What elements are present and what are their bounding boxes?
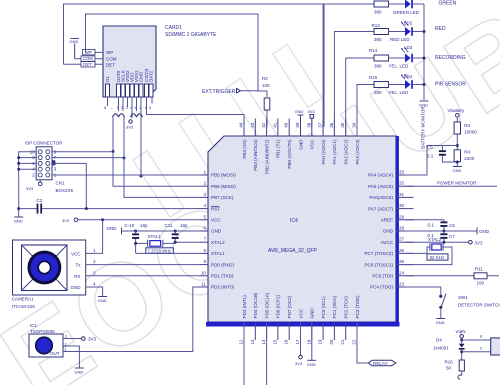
svg-text:CARD1: CARD1: [165, 25, 182, 31]
resistor R13: [372, 23, 389, 42]
svg-text:VCC: VCC: [298, 308, 303, 318]
svg-text:7.3728 MHz: 7.3728 MHz: [148, 248, 172, 253]
resistor R3: [454, 122, 477, 150]
svg-text:4: 4: [203, 203, 206, 208]
svg-text:3V3: 3V3: [62, 218, 70, 223]
svg-text:13: 13: [250, 339, 255, 345]
junction LED bus row2: [423, 30, 426, 33]
wire camera Tx to pin9: [86, 264, 199, 266]
svg-text:2: 2: [203, 181, 206, 186]
IC bottom pin names: [242, 292, 360, 318]
terminal Vbattery: [448, 108, 466, 123]
junction ISP gnd bus: [17, 156, 20, 159]
svg-text:GND: GND: [211, 229, 222, 234]
svg-text:PB5 (MOSI): PB5 (MOSI): [211, 173, 236, 178]
ground camera: [98, 297, 108, 304]
svg-text:R13: R13: [372, 23, 381, 28]
svg-text:17: 17: [295, 339, 300, 345]
svg-text:390: 390: [374, 90, 382, 95]
wire MISO down: [112, 117, 114, 186]
svg-text:CAMERA1: CAMERA1: [12, 296, 34, 301]
svg-text:21: 21: [340, 339, 345, 345]
svg-text:36: 36: [329, 122, 334, 128]
svg-text:100: 100: [262, 83, 270, 88]
resistor R15: [369, 75, 389, 95]
camera CAMERA1: [12, 240, 86, 309]
svg-text:41: 41: [272, 122, 277, 128]
svg-text:40: 40: [284, 122, 289, 128]
card pads: [106, 84, 154, 97]
svg-text:24: 24: [399, 270, 405, 275]
svg-text:GND: GND: [453, 168, 462, 173]
IC top pin numbers: [239, 122, 357, 128]
wire AREF row: [405, 220, 444, 222]
IC right pin stubs: [396, 175, 414, 287]
svg-text:100: 100: [477, 281, 485, 286]
svg-text:1: 1: [93, 248, 96, 253]
switch SW1: [405, 287, 500, 318]
svg-text:R3: R3: [464, 123, 470, 128]
svg-text:R15: R15: [369, 75, 378, 80]
svg-text:39: 39: [295, 122, 300, 128]
junction C7 AVCC row: [442, 241, 445, 244]
capacitor C7: [428, 231, 456, 242]
net label WP: [83, 50, 96, 55]
svg-text:32: 32: [399, 181, 405, 186]
svg-text:PB7 (SCK): PB7 (SCK): [211, 195, 234, 200]
junction MISO-ISP: [112, 150, 115, 153]
op IC4 AVR_MEGA_32_QFP body: [206, 136, 400, 324]
svg-text:30: 30: [399, 203, 405, 208]
label GND pin6: [107, 226, 200, 235]
svg-text:PC7 (TOSC2): PC7 (TOSC2): [364, 251, 393, 256]
junction VCC camera tap: [101, 218, 104, 221]
terminal 3V3 vcc row: [62, 218, 199, 223]
svg-text:34: 34: [352, 122, 357, 128]
svg-text:PA3 (ADC3): PA3 (ADC3): [355, 139, 360, 164]
svg-text:PC1 (SDA): PC1 (SDA): [332, 295, 337, 318]
junction MOSI-ISP: [140, 175, 143, 178]
svg-text:RED: RED: [435, 26, 446, 32]
svg-text:R14: R14: [369, 48, 378, 53]
svg-text:XTAL2: XTAL2: [211, 240, 225, 245]
svg-text:BOX2X5: BOX2X5: [56, 188, 74, 193]
resistor R16: [445, 360, 465, 380]
wire ISP MOSI row: [52, 174, 141, 176]
svg-text:LD3: LD3: [404, 45, 413, 50]
svg-text:PA0 (ADC0): PA0 (ADC0): [321, 139, 326, 164]
svg-text:IC1: IC1: [30, 323, 38, 328]
terminal 3V3 ISP pin2: [26, 180, 42, 191]
IC left pin stubs: [199, 175, 208, 287]
svg-text:C6: C6: [449, 223, 455, 228]
svg-text:PC6 (TOSC1): PC6 (TOSC1): [364, 262, 393, 267]
svg-text:6: 6: [203, 226, 206, 231]
camera pin numbers: [93, 248, 96, 287]
wire XTAL2 pin7: [175, 241, 199, 243]
wire DET row: [64, 63, 104, 65]
capacitor C5: [427, 145, 457, 163]
wire ISP MISO row: [52, 151, 113, 153]
svg-text:31: 31: [399, 192, 405, 197]
svg-text:1N4001: 1N4001: [433, 346, 449, 351]
card CARD1 SD/MMC body: [103, 26, 156, 97]
svg-text:20: 20: [329, 339, 334, 345]
svg-text:3V3: 3V3: [88, 337, 97, 342]
wire SCK down: [123, 117, 125, 197]
crystal XTAL1: [136, 234, 176, 253]
svg-text:GND: GND: [70, 39, 79, 44]
svg-text:BATTERY MONITOR: BATTERY MONITOR: [421, 106, 426, 149]
svg-text:38: 38: [306, 122, 311, 128]
svg-text:PD0 (RXD): PD0 (RXD): [211, 262, 234, 267]
wire COM row: [75, 58, 103, 60]
wire ISP RST row: [52, 163, 86, 208]
svg-text:PC2 (TCK): PC2 (TCK): [344, 296, 349, 319]
svg-text:R16: R16: [445, 360, 454, 365]
svg-text:CMD: CMD: [139, 71, 144, 82]
svg-text:GND: GND: [310, 308, 315, 319]
terminal 3V3 right: [469, 240, 483, 245]
svg-text:18p: 18p: [180, 223, 188, 228]
svg-text:PC3 (TMS): PC3 (TMS): [355, 295, 360, 318]
svg-text:GREEN LED: GREEN LED: [393, 10, 420, 15]
regulator IC5: [480, 334, 500, 356]
wire XTAL1 pin8: [136, 252, 199, 254]
svg-text:C7: C7: [449, 234, 455, 239]
resistor R12: [374, 1, 389, 15]
svg-text:R11: R11: [475, 267, 483, 272]
junction ISP RST net: [85, 207, 88, 210]
svg-text:EXT.TRIGGER: EXT.TRIGGER: [202, 89, 236, 95]
wire green LED row to PA0: [323, 4, 374, 136]
wire camera GND: [86, 287, 103, 296]
svg-text:3: 3: [93, 270, 96, 275]
terminal VqIN: [456, 329, 466, 343]
svg-text:AVR_MEGA_32_QFP: AVR_MEGA_32_QFP: [268, 248, 317, 254]
wire AVCC row to 3V3: [405, 241, 469, 243]
svg-text:43: 43: [250, 122, 255, 128]
svg-text:AVCC: AVCC: [381, 240, 394, 245]
svg-text:9: 9: [203, 259, 206, 264]
svg-text:44: 44: [239, 122, 244, 128]
IR receiver IC1 TSOP: [29, 323, 68, 357]
ferrite arcs pair B: [131, 114, 143, 117]
svg-text:PB4 (SS): PB4 (SS): [242, 139, 247, 159]
svg-text:XTAL1: XTAL1: [148, 234, 162, 239]
svg-text:26: 26: [399, 248, 405, 253]
svg-text:YEL. LED: YEL. LED: [389, 90, 410, 95]
wire red LED row to PA1: [334, 32, 374, 137]
wire relay net: [357, 322, 369, 363]
svg-text:PD3 (INT1): PD3 (INT1): [242, 295, 247, 319]
crystal XTAL2: [405, 237, 452, 265]
svg-text:PD2 (INT0): PD2 (INT0): [211, 285, 235, 290]
svg-text:PC4 (TDO): PC4 (TDO): [370, 285, 393, 290]
svg-text:GND: GND: [14, 219, 23, 224]
svg-text:GREEN: GREEN: [439, 1, 457, 7]
svg-text:GND: GND: [295, 109, 304, 114]
svg-text:LD4: LD4: [404, 74, 413, 79]
svg-text:PA1 (ADC1): PA1 (ADC1): [332, 139, 337, 164]
svg-text:C11: C11: [165, 223, 173, 228]
svg-text:RST: RST: [211, 206, 220, 211]
svg-text:D1: D1: [105, 76, 110, 82]
svg-text:GND: GND: [383, 229, 394, 234]
svg-text:GND: GND: [307, 362, 316, 367]
svg-text:PC0 (SCL): PC0 (SCL): [321, 296, 326, 319]
svg-text:2: 2: [32, 173, 35, 178]
svg-text:11: 11: [201, 282, 206, 287]
svg-text:5: 5: [203, 214, 206, 219]
diode D4: [433, 338, 465, 361]
svg-text:PD7 (OC2): PD7 (OC2): [287, 295, 292, 318]
svg-text:0.1: 0.1: [427, 154, 434, 159]
svg-text:DET: DET: [106, 63, 115, 68]
svg-text:OUT: OUT: [50, 351, 60, 356]
wire LED cathode bus: [423, 4, 425, 100]
svg-text:3: 3: [54, 167, 57, 172]
svg-text:GND: GND: [98, 298, 107, 303]
card pad wires down: [107, 97, 109, 106]
svg-text:PA2 (ADC2): PA2 (ADC2): [344, 139, 349, 164]
svg-text:DET: DET: [83, 62, 92, 67]
IC left pin numbers: [201, 170, 207, 287]
svg-text:22: 22: [352, 339, 357, 345]
ground battery divider: [453, 167, 462, 174]
svg-text:WP: WP: [106, 50, 113, 55]
LED LD4 yellow: [388, 74, 424, 95]
svg-text:PA6(ADC6): PA6(ADC6): [369, 195, 393, 200]
wire PD3 down: [243, 322, 245, 385]
EXT TRIGGER label: [202, 89, 258, 96]
svg-text:27: 27: [399, 237, 405, 242]
wire yellow LED row to PA3: [357, 85, 374, 137]
svg-text:PB0 (XCK/T0): PB0 (XCK/T0): [287, 139, 292, 169]
connector CN1 ISP box: [25, 141, 74, 194]
svg-text:TSOP34836: TSOP34836: [30, 329, 55, 334]
wire battery tap to PA4: [405, 146, 457, 176]
ground TSOP: [74, 368, 84, 375]
svg-text:35: 35: [340, 122, 345, 128]
svg-text:GND: GND: [71, 285, 82, 290]
svg-text:SD/MMC 1 GIGABYTE: SD/MMC 1 GIGABYTE: [165, 32, 217, 38]
svg-text:16: 16: [284, 339, 289, 345]
svg-text:PB1 (T1): PB1 (T1): [276, 139, 281, 158]
svg-text:VCC: VCC: [71, 251, 81, 256]
wire 3V3 down to camera: [86, 220, 103, 254]
terminal 3V3 TSOP: [63, 337, 97, 342]
junction battery divider top: [456, 144, 459, 147]
svg-text:PD1 (TXD): PD1 (TXD): [211, 274, 234, 279]
svg-text:50: 50: [446, 366, 452, 371]
svg-text:390: 390: [374, 37, 382, 42]
resistor R2: [262, 76, 270, 127]
ground pin39: [295, 109, 304, 127]
svg-text:GND: GND: [74, 370, 83, 375]
svg-text:7: 7: [203, 237, 206, 242]
svg-text:ITCAM-328: ITCAM-328: [12, 304, 36, 309]
ground ISP bus: [14, 217, 24, 224]
wire WP row: [86, 51, 103, 53]
capacitor C6: [428, 221, 456, 231]
svg-text:VCC: VCC: [211, 218, 221, 223]
IC right pin numbers: [399, 170, 405, 287]
wire DET outer loop: [64, 4, 325, 127]
svg-text:RED LED: RED LED: [390, 37, 410, 42]
svg-text:3V3: 3V3: [475, 241, 484, 246]
LED LD2 red: [388, 21, 424, 43]
svg-text:10: 10: [201, 270, 207, 275]
svg-text:PB3 (AIN/OC0): PB3 (AIN/OC0): [253, 139, 258, 171]
svg-text:IC4: IC4: [290, 218, 298, 224]
svg-text:D4: D4: [436, 338, 442, 343]
terminal 3V3 pin17: [295, 322, 303, 366]
svg-text:XTAL1: XTAL1: [211, 251, 225, 256]
junction LED bus row3: [423, 57, 426, 60]
svg-text:8: 8: [203, 248, 206, 253]
svg-text:RELAY: RELAY: [373, 361, 388, 366]
svg-text:VCC: VCC: [310, 139, 315, 149]
svg-text:GND: GND: [298, 139, 303, 150]
svg-text:PD4 (OC1B): PD4 (OC1B): [253, 292, 258, 318]
terminal 3V3 pin38: [308, 109, 316, 127]
svg-text:VqIN: VqIN: [456, 329, 466, 334]
svg-text:PD6 (ICP1): PD6 (ICP1): [276, 295, 281, 319]
svg-text:GND: GND: [479, 229, 490, 234]
wire ISP gnd rows: [19, 152, 37, 217]
svg-text:CN1: CN1: [56, 181, 65, 186]
junction C6 GND row: [442, 230, 445, 233]
svg-text:POWER MONITOR: POWER MONITOR: [437, 181, 477, 186]
svg-text:LD2: LD2: [404, 21, 413, 26]
IC left pin names: [211, 173, 236, 290]
wire GND row pin28: [405, 230, 477, 232]
svg-text:3V3: 3V3: [26, 186, 34, 191]
svg-text:3V3: 3V3: [295, 361, 303, 366]
svg-text:GND: GND: [436, 320, 445, 325]
svg-text:10000: 10000: [464, 130, 477, 135]
svg-text:C2: C2: [37, 198, 43, 203]
svg-text:R4: R4: [464, 150, 470, 155]
svg-text:29: 29: [399, 214, 405, 219]
wire yellow LED row to PA2: [346, 58, 374, 136]
svg-text:4: 4: [93, 282, 96, 287]
svg-text:COM: COM: [83, 56, 93, 61]
svg-text:23: 23: [399, 282, 405, 287]
svg-text:37: 37: [318, 122, 323, 128]
capacitor C11: [165, 223, 189, 243]
wire VqIN to regulator: [462, 339, 491, 341]
ground LED bus: [419, 101, 429, 108]
wire WP inner loop to EXT trigger: [86, 14, 268, 97]
svg-text:390: 390: [374, 10, 382, 15]
IC right pin names: [364, 173, 393, 290]
ISP pin numbers: [30, 149, 36, 177]
ground top-left: [70, 39, 80, 59]
svg-text:SW1: SW1: [458, 295, 468, 300]
svg-text:DETECTOR SWITCH: DETECTOR SWITCH: [458, 303, 500, 308]
svg-text:2200: 2200: [464, 156, 475, 161]
wire SCK to pin3: [124, 158, 199, 198]
svg-text:Tx: Tx: [76, 263, 82, 268]
svg-text:19: 19: [318, 339, 323, 345]
svg-text:15: 15: [272, 339, 277, 345]
terminal 3V3 under card: [126, 120, 134, 130]
IC top pin stubs: [244, 119, 357, 137]
svg-text:PB6 (MISO): PB6 (MISO): [211, 184, 236, 189]
wire MOSI to pin1: [141, 174, 199, 176]
svg-text:12: 12: [239, 339, 244, 345]
svg-text:PA4 (ADC4): PA4 (ADC4): [368, 173, 393, 178]
svg-text:28: 28: [399, 226, 405, 231]
junction SCK-ISP: [123, 157, 126, 160]
svg-text:GND: GND: [107, 226, 118, 231]
capacitor C2: [19, 198, 199, 214]
wire MISO to pin2: [113, 152, 199, 186]
svg-text:Vbattery: Vbattery: [448, 108, 466, 113]
wire TSOP OUT to PD2: [63, 287, 199, 352]
svg-text:33: 33: [399, 170, 405, 175]
LED LD3 yellow: [388, 45, 424, 69]
svg-text:PIR SENSOR: PIR SENSOR: [435, 82, 466, 88]
capacitor C10: [125, 223, 149, 253]
net label COM: [81, 56, 95, 61]
svg-text:14: 14: [261, 339, 266, 345]
label GND right: [477, 228, 490, 235]
svg-text:PA7 (ADC7): PA7 (ADC7): [368, 206, 393, 211]
wire PD5 down: [266, 322, 268, 385]
net label DET: [81, 62, 95, 67]
junction crystal right: [174, 241, 177, 244]
svg-text:XTAL2: XTAL2: [428, 237, 442, 242]
wire diode to regulator: [462, 351, 491, 353]
resistor R11: [405, 267, 499, 286]
svg-text:AREF: AREF: [381, 218, 393, 223]
svg-text:3V3: 3V3: [308, 109, 316, 114]
card pad pin numbers row: [104, 105, 152, 110]
wire POWER MONITOR row: [405, 185, 497, 187]
svg-text:18: 18: [306, 339, 311, 345]
svg-text:R2: R2: [262, 76, 268, 81]
svg-text:DAT2: DAT2: [149, 70, 154, 82]
resistor R14: [369, 48, 389, 69]
wire camera RX to pin10: [86, 275, 199, 277]
svg-text:PA5 (ADC5): PA5 (ADC5): [368, 184, 393, 189]
wire TSOP gnd: [63, 346, 79, 368]
IC bottom pin stubs: [244, 322, 357, 340]
svg-text:25: 25: [399, 259, 405, 264]
ground switch: [436, 319, 446, 326]
ground pin18: [307, 322, 317, 367]
svg-text:COM: COM: [106, 57, 117, 62]
watermark fragments: [133, 45, 322, 218]
svg-text:390: 390: [374, 64, 382, 69]
svg-text:←: ←: [110, 105, 114, 110]
svg-text:18p: 18p: [140, 223, 148, 228]
svg-text:C-10: C-10: [125, 223, 135, 228]
junction LED bus row4: [423, 83, 426, 86]
card pad names rotated: [105, 68, 154, 82]
svg-text:2: 2: [93, 259, 96, 264]
IC bottom pin numbers: [239, 339, 357, 345]
svg-text:3V3: 3V3: [126, 125, 134, 130]
svg-text:PC5 (TDI): PC5 (TDI): [372, 274, 393, 279]
RST overline: [211, 205, 219, 207]
svg-text:PB2 (AIN0/INT2): PB2 (AIN0/INT2): [264, 139, 269, 174]
svg-text:RECORDING: RECORDING: [435, 55, 466, 61]
junction crystal left: [134, 242, 137, 245]
